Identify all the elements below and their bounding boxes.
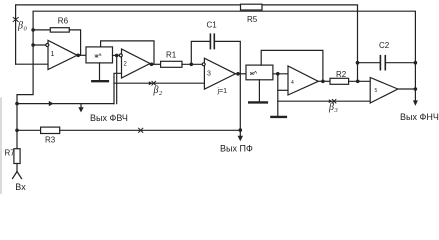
label R3 [45,136,56,145]
op-amp U1 [46,40,77,69]
label Vyh FVCH [90,113,128,123]
arrow on HPF wire [49,101,54,106]
wire op-amp1 output [77,54,86,56]
wire op-amp1 noninverting input [16,63,48,65]
label C2 [379,41,390,50]
block DAC2 [246,65,273,80]
wire op-amp4 output to R2 [318,80,330,82]
wire A top outer feedback [16,5,358,81]
svg-text:j=1: j=1 [217,88,228,95]
label block DAC2 text [249,71,258,77]
capacitor C2 integrator feedback [358,56,416,70]
label R2 [336,70,347,79]
svg-text:ж^: ж^ [249,71,258,77]
op-amp U3 [202,58,235,89]
ground below block DAC2 [249,80,267,103]
wire op-amp2 noninverting input [114,73,122,103]
wire block DAC2 top terminal to op-amp4 output [261,50,323,81]
label beta3 [328,102,339,114]
resistor R3 [17,127,240,133]
svg-text:β: β [17,21,23,32]
label R1 [166,51,177,60]
svg-text:C1: C1 [207,21,218,30]
svg-text:4: 4 [291,80,294,86]
wire left vertical to op-amp1 inverting input and step to node X [17,30,33,130]
op-amp U5 [370,78,398,104]
wire block DAC2 output to op-amp4 inverting input [273,73,288,75]
wire B outer feedback from op-amp5 output [33,11,415,63]
svg-text:R2: R2 [336,70,347,79]
wire op-amp3 output to block DAC2 [236,73,247,75]
svg-text:β: β [328,102,334,113]
svg-text:ж^: ж^ [94,54,103,60]
label C1 [207,21,218,30]
wire block DAC1 top terminal to op-amp2 output [101,41,154,64]
block DAC1 [86,47,113,63]
node X input summing node [15,102,19,106]
label op-amp4 number [291,80,294,86]
resistor R7 input [14,130,20,171]
break mark on R3 wire [139,128,143,132]
HPF output tap arrow [78,104,83,113]
label op-amp2 number [124,62,128,68]
wire bandpass drop to R3 row [239,74,241,131]
svg-text:β: β [153,85,159,96]
label Vyh PF [220,144,253,154]
svg-text:R7: R7 [5,149,16,158]
label beta0 [17,21,28,33]
svg-text:Вых ПФ: Вых ПФ [220,144,253,154]
label op-amp5 number [375,88,378,94]
label Vx input [15,182,26,192]
lowpass output arrow [413,63,418,106]
wire op-amp4 noninverting input to ground [271,74,288,117]
svg-text:Вых ФНЧ: Вых ФНЧ [400,112,439,122]
capacitor C1 integrator feedback [191,34,240,74]
svg-text:5: 5 [375,88,378,94]
label R6 [58,17,69,26]
svg-text:R1: R1 [166,51,177,60]
ground below block DAC1 [92,63,108,81]
label block DAC1 text [94,54,103,60]
wire beta2 from op-amp2 noninverting branch to op-amp3 noninverting input [114,82,204,84]
label R7 [5,149,16,158]
resistor R1 [161,61,205,67]
bandpass output arrow [238,130,243,141]
wire op-amp1 inverting input [33,44,48,46]
svg-text:Вх: Вх [15,182,26,192]
node beta0 break mark [13,17,18,21]
wire op-amp2 output to R1 [150,63,161,65]
resistor R5 [241,4,263,10]
scan artifact left edge line [0,98,2,194]
svg-text:2: 2 [159,90,163,97]
op-amp U2 [119,49,150,78]
wire op-amp5 output [398,88,416,90]
op-amp U4 [288,66,318,95]
svg-text:Вых ФВЧ: Вых ФВЧ [90,113,128,123]
label op-amp1 number [51,51,55,58]
svg-text:3: 3 [334,107,339,114]
svg-text:1: 1 [51,51,55,58]
wire node P1 down to HPF wire [116,55,118,103]
svg-text:3: 3 [207,71,211,78]
resistor R2 [330,78,370,84]
svg-text:0: 0 [24,26,28,33]
svg-text:R3: R3 [45,136,56,145]
label j=1 gain [217,88,228,95]
wire HPF feedback to node X [17,103,114,105]
svg-text:R5: R5 [247,15,258,24]
label beta2 [153,85,164,97]
label Vyh FNCH [400,112,439,122]
label op-amp3 number [207,71,211,78]
wire beta3 to op-amp5 noninverting input [278,100,370,102]
svg-text:R6: R6 [58,17,69,26]
label R5 [247,15,258,24]
arrow and break mark beta2 [149,81,153,85]
wire block DAC1 output to op-amp2 inverting input [113,54,122,56]
resistor R6 [33,28,81,56]
svg-text:C2: C2 [379,41,390,50]
input terminal Vx symbol [13,172,22,179]
arrow and break mark beta3 [329,99,333,103]
